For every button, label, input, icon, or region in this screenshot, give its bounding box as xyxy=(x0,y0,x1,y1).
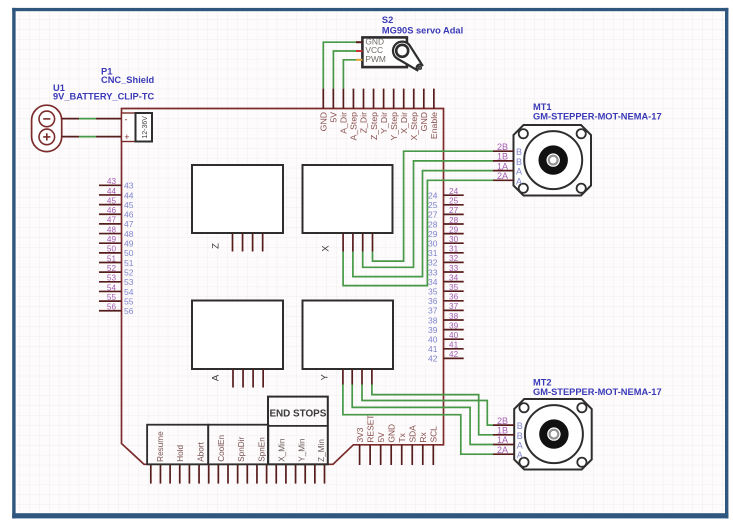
pin 41 (right header) xyxy=(444,348,464,350)
pin Y_Step (top header) xyxy=(393,89,395,109)
pin 36 (right header) xyxy=(444,300,464,302)
svg-text:Rx: Rx xyxy=(418,431,428,442)
svg-text:END STOPS: END STOPS xyxy=(269,409,326,420)
svg-text:SCL: SCL xyxy=(429,426,439,443)
pin 1A of MT2 xyxy=(493,444,514,446)
svg-text:32: 32 xyxy=(449,254,459,263)
svg-text:B: B xyxy=(517,431,523,441)
svg-text:41: 41 xyxy=(428,344,438,354)
pin 37 (right header) xyxy=(444,309,464,311)
svg-text:44: 44 xyxy=(107,187,117,196)
pin 43 (left header) xyxy=(99,184,122,186)
pin 30 (right header) xyxy=(444,242,464,244)
svg-text:27: 27 xyxy=(449,206,459,215)
svg-text:12-36V: 12-36V xyxy=(142,116,149,139)
wire Y pin3 to MT2 2B xyxy=(362,385,493,426)
pin Enable (top header) xyxy=(433,89,435,109)
svg-text:53: 53 xyxy=(124,277,134,287)
pin SCL (bottom right header) xyxy=(432,445,434,465)
pin 2A of MT2 xyxy=(493,453,514,455)
svg-text:1B: 1B xyxy=(497,152,508,162)
svg-text:X_Step: X_Step xyxy=(409,112,419,141)
svg-text:56: 56 xyxy=(124,306,134,316)
svg-text:Resume: Resume xyxy=(156,431,165,462)
pin 25 (right header) xyxy=(444,204,464,206)
svg-text:30: 30 xyxy=(449,235,459,244)
socket A pins xyxy=(232,369,234,388)
svg-text:50: 50 xyxy=(107,245,117,254)
svg-text:45: 45 xyxy=(124,200,134,210)
pin 28 (right header) xyxy=(444,223,464,225)
svg-text:50: 50 xyxy=(124,248,134,258)
svg-text:Tx: Tx xyxy=(397,432,407,442)
stepper motor MT1 GM-STEPPER-MOT-NEMA-17 xyxy=(514,125,592,196)
svg-text:27: 27 xyxy=(428,210,438,220)
svg-text:42: 42 xyxy=(449,350,459,359)
svg-text:Hold: Hold xyxy=(176,445,185,462)
wire X pin4 to MT1 2B xyxy=(373,151,494,261)
socket Y xyxy=(303,301,394,370)
pin X_Step (top header) xyxy=(413,89,415,109)
svg-text:41: 41 xyxy=(449,341,459,350)
svg-text:9V_BATTERY_CLIP-TC: 9V_BATTERY_CLIP-TC xyxy=(53,92,155,102)
svg-text:33: 33 xyxy=(428,267,438,277)
socket Z pins xyxy=(232,233,234,251)
svg-text:38: 38 xyxy=(428,315,438,325)
svg-text:25: 25 xyxy=(449,197,459,206)
svg-text:MT1: MT1 xyxy=(533,102,552,112)
svg-text:Z_Min: Z_Min xyxy=(317,439,326,462)
wire Y pin4 to MT2 1B xyxy=(372,385,493,435)
svg-text:49: 49 xyxy=(124,239,134,249)
svg-text:Z: Z xyxy=(211,243,222,249)
pin 46 (left header) xyxy=(99,213,122,215)
svg-text:B: B xyxy=(516,147,522,157)
svg-text:36: 36 xyxy=(428,296,438,306)
svg-text:46: 46 xyxy=(107,206,117,215)
pin GND (bottom right header) xyxy=(390,445,392,465)
svg-text:2A: 2A xyxy=(497,171,508,181)
svg-text:45: 45 xyxy=(107,196,117,205)
svg-text:X_Dir: X_Dir xyxy=(399,112,409,134)
pin 54 (left header) xyxy=(99,290,122,292)
svg-text:X_Min: X_Min xyxy=(278,438,287,462)
pin 49 (left header) xyxy=(99,242,122,244)
svg-text:33: 33 xyxy=(449,264,459,273)
box END STOPS xyxy=(268,397,328,465)
pin 42 (right header) xyxy=(444,357,464,359)
svg-text:54: 54 xyxy=(107,283,117,292)
svg-text:40: 40 xyxy=(449,331,459,340)
pin 40 (right header) xyxy=(444,338,464,340)
svg-text:30: 30 xyxy=(428,239,438,249)
border frame xyxy=(12,8,15,519)
pin 2A of MT1 xyxy=(493,179,514,181)
pin 2B of MT2 xyxy=(493,424,514,426)
svg-text:2B: 2B xyxy=(497,416,508,426)
svg-text:32: 32 xyxy=(428,258,438,268)
svg-text:+: + xyxy=(124,132,129,142)
pin Tx (bottom right header) xyxy=(401,445,403,465)
pin GND (top header) xyxy=(322,89,324,109)
svg-text:RESET: RESET xyxy=(365,415,375,443)
svg-text:36: 36 xyxy=(449,293,459,302)
svg-text:Y_Dir: Y_Dir xyxy=(379,112,389,134)
pin 47 (left header) xyxy=(99,223,122,225)
svg-text:35: 35 xyxy=(449,283,459,292)
box Resume/Hold/Abort xyxy=(147,425,208,465)
socket A xyxy=(192,301,283,370)
svg-text:GND: GND xyxy=(419,112,429,131)
bottom header pins xyxy=(150,464,152,483)
pin 5V (top header) xyxy=(332,89,334,109)
svg-text:48: 48 xyxy=(124,229,134,239)
pin 1B of MT2 xyxy=(493,434,514,436)
pin 5V (bottom right header) xyxy=(380,445,382,465)
svg-text:A: A xyxy=(517,441,523,451)
pin 52 (left header) xyxy=(99,271,122,273)
svg-text:52: 52 xyxy=(124,267,134,277)
svg-text:A: A xyxy=(211,374,222,381)
svg-text:A: A xyxy=(516,176,522,186)
pin 34 (right header) xyxy=(444,281,464,283)
svg-text:CoolEn: CoolEn xyxy=(217,435,226,462)
svg-text:43: 43 xyxy=(107,177,117,186)
wire X pin1 to MT1 2A xyxy=(343,180,493,285)
svg-text:MT2: MT2 xyxy=(533,378,552,388)
wire battery minus to P1 xyxy=(62,118,79,120)
pin 45 (left header) xyxy=(99,204,122,206)
svg-text:54: 54 xyxy=(124,287,134,297)
pin 3V3 (bottom right header) xyxy=(359,445,361,465)
pin 1A of MT1 xyxy=(493,170,514,172)
servo S2 MG90S box xyxy=(362,37,407,67)
svg-text:Enable: Enable xyxy=(429,112,439,139)
svg-text:40: 40 xyxy=(428,335,438,345)
wire battery plus to P1 xyxy=(62,136,79,138)
pin Y_Dir (top header) xyxy=(383,89,385,109)
pin 38 (right header) xyxy=(444,319,464,321)
svg-text:35: 35 xyxy=(428,287,438,297)
pin 53 (left header) xyxy=(99,281,122,283)
svg-text:GM-STEPPER-MOT-NEMA-17: GM-STEPPER-MOT-NEMA-17 xyxy=(533,387,662,397)
socket Y pins xyxy=(342,369,344,385)
svg-text:44: 44 xyxy=(124,190,134,200)
pin 48 (left header) xyxy=(99,233,122,235)
svg-text:29: 29 xyxy=(428,229,438,239)
pin 24 (right header) xyxy=(444,194,464,196)
pin X_Dir (top header) xyxy=(403,89,405,109)
svg-text:Y: Y xyxy=(319,373,330,380)
svg-text:48: 48 xyxy=(107,225,117,234)
connector P1 CNC_Shield outline xyxy=(122,109,444,465)
wire servo GND to P1 GND pin xyxy=(356,41,362,43)
pin Z_Dir (top header) xyxy=(363,89,365,109)
svg-text:43: 43 xyxy=(124,181,134,191)
svg-text:31: 31 xyxy=(449,245,459,254)
svg-text:Y_Min: Y_Min xyxy=(297,438,306,462)
svg-text:1B: 1B xyxy=(497,426,508,436)
svg-text:Y_Step: Y_Step xyxy=(389,112,399,141)
svg-text:A_Step: A_Step xyxy=(349,112,359,141)
battery U1 9V_BATTERY_CLIP-TC xyxy=(32,105,62,151)
pin Z_Step (top header) xyxy=(373,89,375,109)
svg-text:53: 53 xyxy=(107,274,117,283)
svg-text:24: 24 xyxy=(428,191,438,201)
pin 27 (right header) xyxy=(444,213,464,215)
pin Rx (bottom right header) xyxy=(422,445,424,465)
pin SDA (bottom right header) xyxy=(411,445,413,465)
svg-text:SDA: SDA xyxy=(407,425,417,443)
pin 50 (left header) xyxy=(99,252,122,254)
svg-text:39: 39 xyxy=(449,321,459,330)
pin 29 (right header) xyxy=(444,233,464,235)
svg-text:49: 49 xyxy=(107,235,117,244)
wire servo PWM to P1 A_Dir pin xyxy=(356,59,362,61)
svg-text:MG90S servo Adal: MG90S servo Adal xyxy=(382,26,463,36)
svg-text:A: A xyxy=(516,167,522,177)
svg-text:Z_Dir: Z_Dir xyxy=(359,112,369,133)
svg-text:SpnDir: SpnDir xyxy=(237,437,246,462)
wire servo VCC to P1 5V pin xyxy=(356,50,362,52)
svg-text:51: 51 xyxy=(107,254,117,263)
svg-text:47: 47 xyxy=(124,219,134,229)
box CoolEn/SpnDir/SpnEn xyxy=(208,425,268,465)
svg-text:28: 28 xyxy=(428,219,438,229)
svg-text:X: X xyxy=(320,245,331,252)
wire Y pin2 to MT2 1A xyxy=(352,385,493,445)
pin 2B of MT1 xyxy=(493,150,514,152)
svg-text:B: B xyxy=(517,421,523,431)
svg-text:B: B xyxy=(516,157,522,167)
svg-text:38: 38 xyxy=(449,312,459,321)
svg-text:55: 55 xyxy=(107,293,117,302)
svg-text:51: 51 xyxy=(124,258,134,268)
svg-text:42: 42 xyxy=(428,354,438,364)
svg-text:25: 25 xyxy=(428,200,438,210)
pin 55 (left header) xyxy=(99,300,122,302)
wire X pin2 to MT1 1A xyxy=(353,171,493,277)
pin 56 (left header) xyxy=(99,310,122,312)
pin 44 (left header) xyxy=(99,194,122,196)
socket X xyxy=(303,165,393,233)
wire X pin3 to MT1 1B xyxy=(363,161,493,267)
svg-text:SpnEn: SpnEn xyxy=(258,437,267,462)
svg-text:5V: 5V xyxy=(329,112,339,123)
svg-text:34: 34 xyxy=(449,273,459,282)
svg-text:CNC_Shield: CNC_Shield xyxy=(101,75,155,85)
svg-text:2B: 2B xyxy=(497,142,508,152)
svg-text:46: 46 xyxy=(124,210,134,220)
pin A_Dir (top header) xyxy=(342,89,344,109)
stepper motor MT2 GM-STEPPER-MOT-NEMA-17 xyxy=(514,399,592,470)
pin 31 (right header) xyxy=(444,252,464,254)
svg-text:GM-STEPPER-MOT-NEMA-17: GM-STEPPER-MOT-NEMA-17 xyxy=(533,112,662,122)
pin 1B of MT1 xyxy=(493,160,514,162)
svg-text:34: 34 xyxy=(428,277,438,287)
pin 32 (right header) xyxy=(444,261,464,263)
svg-text:1A: 1A xyxy=(497,435,508,445)
wire Y pin1 to MT2 2A xyxy=(343,385,493,455)
svg-text:1A: 1A xyxy=(497,161,508,171)
pin 35 (right header) xyxy=(444,290,464,292)
pin RESET (bottom right header) xyxy=(369,445,371,465)
svg-text:S2: S2 xyxy=(382,15,393,25)
socket Z xyxy=(192,165,283,233)
svg-text:28: 28 xyxy=(449,216,459,225)
pin A_Step (top header) xyxy=(352,89,354,109)
svg-text:Z_Step: Z_Step xyxy=(369,112,379,140)
power connector 12-36V xyxy=(122,113,153,142)
svg-text:55: 55 xyxy=(124,296,134,306)
pin 51 (left header) xyxy=(99,262,122,264)
svg-text:37: 37 xyxy=(428,306,438,316)
svg-text:A: A xyxy=(517,450,523,460)
svg-text:47: 47 xyxy=(107,216,117,225)
svg-text:5V: 5V xyxy=(376,432,386,443)
svg-text:37: 37 xyxy=(449,302,459,311)
socket X pins xyxy=(342,233,344,251)
svg-text:31: 31 xyxy=(428,248,438,258)
svg-text:GND: GND xyxy=(319,112,329,131)
svg-text:A_Dir: A_Dir xyxy=(339,112,349,134)
servo S2 horn xyxy=(393,42,423,71)
svg-text:PWM: PWM xyxy=(365,54,385,64)
svg-text:2A: 2A xyxy=(497,445,508,455)
svg-text:GND: GND xyxy=(386,424,396,443)
pin GND (top header) xyxy=(423,89,425,109)
pin 39 (right header) xyxy=(444,329,464,331)
svg-text:39: 39 xyxy=(428,325,438,335)
svg-text:Abort: Abort xyxy=(196,442,205,462)
svg-text:56: 56 xyxy=(107,303,117,312)
svg-text:3V3: 3V3 xyxy=(355,427,365,442)
svg-text:52: 52 xyxy=(107,264,117,273)
svg-text:24: 24 xyxy=(449,187,459,196)
svg-text:29: 29 xyxy=(449,225,459,234)
svg-text:-: - xyxy=(125,114,128,124)
pin 33 (right header) xyxy=(444,271,464,273)
